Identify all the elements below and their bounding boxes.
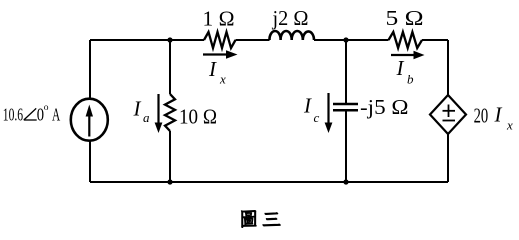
- svg-text:A: A: [52, 105, 60, 125]
- svg-text:5 Ω: 5 Ω: [386, 6, 424, 30]
- node dot bottom of 10 ohm branch: [167, 179, 172, 184]
- wire top rail between L1 and R2: [314, 39, 389, 41]
- svg-text:10.6: 10.6: [3, 105, 23, 125]
- wire top rail right segment: [422, 39, 448, 41]
- svg-text:a: a: [143, 110, 150, 125]
- label Ix: [208, 57, 226, 86]
- node dot top of capacitor branch: [343, 37, 348, 42]
- label Ib: [396, 56, 415, 87]
- svg-text:I: I: [208, 57, 217, 81]
- inductor j2 ohm (coil): [269, 31, 314, 40]
- resistor 1 ohm (zigzag): [204, 32, 236, 48]
- wire 10 ohm branch bottom: [169, 131, 171, 182]
- caption 三 (three): [263, 213, 281, 226]
- wire right branch below dependent source: [447, 134, 449, 182]
- label 10.6∠0° A: [3, 103, 61, 125]
- svg-text:-j5 Ω: -j5 Ω: [360, 95, 409, 119]
- wire bottom rail: [90, 181, 448, 183]
- svg-text:o: o: [44, 103, 49, 113]
- wire left branch below current source: [89, 141, 91, 182]
- arrow Ib: [391, 51, 425, 60]
- arrow Ic: [325, 93, 333, 133]
- current source 10.6 A circle: [71, 99, 108, 141]
- svg-text:I: I: [494, 103, 503, 127]
- wire right branch above dependent source: [447, 40, 449, 95]
- wire top rail left segment: [90, 39, 204, 41]
- svg-text:1 Ω: 1 Ω: [203, 6, 235, 30]
- svg-text:I: I: [396, 56, 405, 80]
- svg-text:I: I: [133, 97, 142, 121]
- arrow Ix: [203, 50, 238, 59]
- svg-text:20: 20: [474, 103, 489, 127]
- resistor 10 ohm (vertical zigzag): [165, 94, 175, 131]
- wire top rail between R1 and L1: [236, 39, 270, 41]
- wire 10 ohm branch top: [169, 40, 171, 94]
- label Ia: [133, 97, 151, 126]
- svg-text:x: x: [219, 72, 226, 87]
- node dot bottom of capacitor branch: [343, 179, 348, 184]
- svg-text:I: I: [303, 93, 312, 117]
- label Ic: [303, 93, 320, 125]
- plus-minus symbol inside diamond: [443, 105, 456, 121]
- arrow Ia: [155, 94, 163, 133]
- wire capacitor branch top: [345, 40, 347, 104]
- svg-text:b: b: [407, 72, 414, 87]
- wire left branch above current source: [89, 40, 91, 99]
- caption 圖 (Figure): [241, 211, 256, 228]
- svg-text:10 Ω: 10 Ω: [179, 105, 217, 129]
- current source arrow: [86, 105, 93, 137]
- node dot top of 10 ohm branch: [167, 37, 172, 42]
- svg-text:x: x: [506, 117, 513, 132]
- label 20 Ix: [474, 103, 513, 133]
- wire capacitor branch bottom: [345, 110, 347, 182]
- dependent source 20 Ix (diamond): [430, 95, 466, 134]
- svg-text:j2 Ω: j2 Ω: [272, 6, 309, 30]
- resistor 5 ohm (zigzag): [389, 32, 423, 48]
- svg-text:c: c: [314, 110, 320, 125]
- capacitor -j5 ohm plates: [333, 104, 358, 110]
